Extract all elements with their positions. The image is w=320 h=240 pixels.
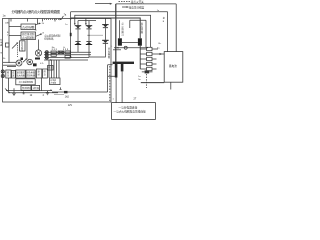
node junction row4 [50, 59, 51, 60]
wire box B down [26, 40, 28, 60]
wire trunk vertical [70, 12, 72, 58]
wire tick B1 [42, 19, 44, 22]
svg-text:1a: 1a [50, 89, 53, 91]
wire dashed right [146, 74, 148, 88]
node arrow row3 [70, 57, 72, 59]
box V1 [6, 70, 11, 78]
wire verticals mid [49, 60, 59, 78]
component left small box [6, 43, 10, 47]
wire A top [116, 4, 176, 52]
svg-text:稳: 稳 [7, 70, 9, 74]
wire tick B [10, 19, 12, 22]
callout 2 arrow [122, 6, 127, 8]
wire winding feed [119, 20, 121, 38]
svg-text:恒流控制: 恒流控制 [22, 86, 30, 90]
box B control unit [21, 32, 36, 40]
box W3 [32, 85, 40, 90]
svg-text:5a: 5a [138, 79, 141, 81]
wire battery stub [170, 82, 172, 89]
connector pin 2 [147, 52, 152, 55]
box V4 [36, 69, 41, 78]
wire dashed divider [109, 66, 111, 101]
svg-text:1a: 1a [3, 14, 6, 18]
box W2 [21, 85, 31, 90]
svg-text:滤: 滤 [12, 71, 14, 75]
resistor R rowright2 [65, 55, 70, 58]
ground G3 [46, 91, 50, 95]
svg-text:2T: 2T [134, 97, 137, 100]
wire 7a leader [62, 16, 64, 19]
diode T6 [86, 41, 92, 44]
diode T3 [102, 18, 108, 40]
resistor R rowright [65, 51, 70, 54]
diode T5 [75, 41, 81, 52]
box V1b [12, 70, 16, 78]
svg-text:火: 火 [122, 25, 125, 28]
wire diag bl [5, 89, 10, 94]
terminal circle X2 [45, 53, 48, 56]
svg-text:B+: B+ [159, 43, 162, 45]
box amp [50, 78, 61, 85]
wire dotted signal [44, 18, 60, 20]
node coil terminal [124, 46, 127, 49]
core leg2 [121, 64, 124, 71]
svg-text:高: 高 [141, 22, 144, 26]
transistor Q2 [16, 60, 22, 66]
svg-text:过压保: 过压保 [33, 86, 40, 90]
node arrow P [74, 23, 76, 25]
svg-text:波形整形: 波形整形 [16, 70, 24, 74]
resistor dark on wire [64, 91, 68, 93]
wire dotted base link [88, 34, 104, 36]
terminal circle X3 [1, 70, 4, 73]
box signal generator vertical [20, 41, 26, 51]
resistor R row1b [58, 51, 64, 54]
node arrow coil [116, 47, 119, 49]
frame distributor [3, 19, 112, 103]
wire bottom bus1 [6, 90, 52, 92]
svg-text:4: 4 [43, 94, 45, 97]
wire cluster stubs [7, 67, 42, 91]
svg-text:点: 点 [122, 22, 125, 26]
svg-text:点火提前控制: 点火提前控制 [22, 35, 35, 39]
svg-text:5a: 5a [157, 48, 160, 50]
inductor L1 dark [35, 58, 40, 60]
svg-text:—与点火线圈及高压线连接: —与点火线圈及高压线连接 [114, 110, 147, 114]
node arrow pin2 [160, 53, 163, 55]
ground G2 [22, 91, 25, 94]
wire battery bottom [141, 82, 164, 84]
diode T2 [86, 26, 92, 42]
diode T1 [75, 26, 81, 42]
wire bottom bus2 [8, 92, 58, 94]
connector pin 4 [147, 62, 152, 65]
wire Q bus [71, 18, 141, 38]
wire B top [71, 12, 168, 52]
wire stub left2 [3, 64, 16, 66]
wire tick C1 [54, 19, 56, 22]
resistor R row1a [51, 51, 56, 54]
wire diag arrow gen [12, 43, 18, 49]
box A signal unit [21, 24, 36, 30]
wire dashed gen left [17, 45, 19, 57]
diagonal arrow [23, 59, 27, 62]
wire Q1 up [38, 40, 40, 50]
svg-text:接高压分线盒: 接高压分线盒 [129, 6, 145, 10]
svg-text:驱: 驱 [38, 69, 40, 73]
svg-text:7a: 7a [64, 14, 67, 17]
box V2 [16, 70, 25, 78]
terminal circle X4 [1, 74, 4, 77]
wire link T1 T2 top [78, 21, 96, 26]
svg-text:信: 信 [21, 41, 24, 45]
wire stub core left [108, 65, 115, 76]
wire coil bottom2 [113, 49, 121, 51]
transistor Q1 [35, 50, 41, 56]
ground G1 [12, 88, 16, 95]
svg-text:1: 1 [113, 98, 115, 100]
callout dashed 1 [119, 1, 131, 3]
wire vertical left bus [8, 19, 10, 64]
wire row3 [44, 56, 89, 58]
svg-text:接点火开关: 接点火开关 [131, 0, 144, 4]
node junction [70, 33, 72, 36]
svg-text:1a: 1a [65, 24, 68, 26]
winding W1 dark [118, 38, 122, 45]
wire coil top [130, 20, 146, 47]
svg-text:+: + [111, 46, 112, 48]
wire Q drop [85, 18, 87, 24]
svg-text:2T: 2T [122, 35, 125, 37]
svg-text:1a: 1a [138, 76, 141, 78]
wire arrow from box B [36, 34, 41, 36]
svg-text:12V: 12V [68, 104, 73, 107]
resistor R5 [145, 70, 150, 73]
wire bottom right link [52, 74, 108, 92]
svg-text:—与分电器连接: —与分电器连接 [119, 105, 138, 109]
wire dotted bottom [55, 94, 65, 96]
svg-text:点火信号调整: 点火信号调整 [22, 25, 35, 29]
svg-text:闭合角度: 闭合角度 [27, 70, 35, 74]
svg-text:分: 分 [0, 38, 2, 42]
wire tick C [27, 19, 29, 22]
box W1 wide [16, 79, 35, 85]
svg-text:限: 限 [44, 69, 46, 73]
box U5 small [48, 66, 54, 71]
mark small [60, 87, 62, 89]
diode T4 [102, 40, 109, 43]
transistor Q3 [27, 59, 33, 65]
box V5 [43, 69, 48, 78]
core bar [113, 62, 134, 64]
svg-text:B: B [43, 33, 45, 35]
wire row2 [44, 54, 91, 56]
svg-text:N₂: N₂ [3, 58, 6, 60]
svg-text:1kΩ: 1kΩ [65, 97, 69, 99]
wire P [75, 15, 151, 47]
terminal circle X1 [45, 51, 48, 54]
wire coil bottom [114, 47, 148, 49]
connector pin 5 [147, 67, 152, 70]
resistor R row2a [51, 54, 56, 57]
box V3 [26, 70, 35, 78]
wire emitter loop [89, 44, 105, 57]
node trunk bottom [70, 56, 72, 58]
svg-text:12: 12 [30, 94, 33, 97]
svg-text:4.7k: 4.7k [40, 63, 43, 65]
box battery [164, 52, 183, 83]
terminal circle X3b [45, 56, 48, 59]
core leg1 [115, 64, 118, 78]
svg-text:5V: 5V [42, 23, 45, 25]
wire box links [9, 19, 38, 36]
wire HT line thick [115, 4, 117, 62]
svg-text:接: 接 [163, 16, 165, 20]
component small dark [21, 58, 24, 61]
connector pin 1 [147, 47, 152, 50]
svg-text:分电器内点火器与点火线圈控制电路图: 分电器内点火器与点火线圈控制电路图 [12, 9, 61, 14]
wire core down2 [121, 71, 123, 102]
node arrowhead dotted [60, 18, 63, 20]
wire arrow from box A [35, 23, 40, 24]
svg-text:B: B [163, 21, 165, 23]
box legend bottom right [112, 103, 156, 120]
wire winding link [122, 41, 138, 43]
node arrow Q [85, 23, 87, 25]
wire row4 [44, 59, 88, 61]
svg-text:1a: 1a [35, 29, 38, 31]
wire row1 [44, 51, 91, 53]
connector pin 3 [147, 57, 152, 60]
svg-text:点火提前角控制: 点火提前角控制 [19, 80, 34, 84]
svg-text:点火提前角控制: 点火提前角控制 [44, 34, 61, 38]
winding W2 dark [138, 38, 142, 45]
wire connector feed [139, 46, 141, 69]
wire stub left1 [3, 61, 16, 63]
wire core down1 [115, 78, 117, 103]
component dark small [33, 63, 37, 66]
svg-text:功率放: 功率放 [50, 78, 56, 82]
svg-text:凸轮: 凸轮 [5, 20, 9, 24]
wire bracket arrow [95, 3, 110, 5]
svg-text:蓄电池: 蓄电池 [169, 64, 177, 68]
